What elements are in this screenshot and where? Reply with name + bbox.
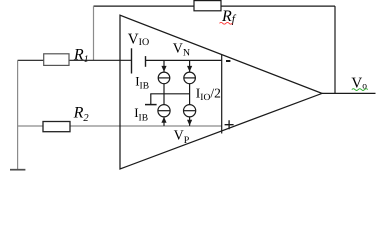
wire left vertical (grey): [17, 60, 19, 169]
red squiggle under Rf: [220, 22, 233, 24]
wire output from op-amp apex to Vo terminal: [322, 92, 376, 94]
wire right riser from Rf wire down to output: [334, 6, 336, 93]
battery VIO short plate: [145, 56, 147, 67]
ground: [10, 169, 25, 171]
wire model box right vertical: [221, 54, 223, 133]
wire VN rail: [146, 59, 222, 61]
wire input run R1 row: [18, 59, 132, 61]
current source IB2 (bottom left): circle, arrow up, wire: [158, 105, 170, 117]
wire R2 row (grey) to + rail: [18, 125, 222, 127]
wire top feedback run: [94, 5, 336, 7]
resistor R1: [44, 54, 69, 66]
resistor Rf: [194, 1, 221, 11]
current source IB1 (top left): wire, arrow down, circle: [163, 60, 165, 72]
plus input sign: [225, 120, 234, 129]
battery VIO long plate: [131, 48, 133, 73]
op-amp U1 triangle: [120, 15, 322, 169]
wire left riser (grey) from R1 node up to Rf wire: [93, 6, 95, 60]
resistor R2: [43, 122, 70, 132]
current source (bottom right): circle, wire, arrow down: [184, 105, 196, 117]
wire left column between rows: [163, 84, 165, 105]
minus input sign: [226, 60, 230, 62]
current source (top right): wire, arrow down, circle: [189, 60, 191, 72]
wire right column between rows: [189, 84, 191, 105]
ground stub on middle tie: [150, 94, 152, 105]
green squiggle under Vo: [352, 89, 368, 91]
wire middle tie: [150, 93, 189, 95]
